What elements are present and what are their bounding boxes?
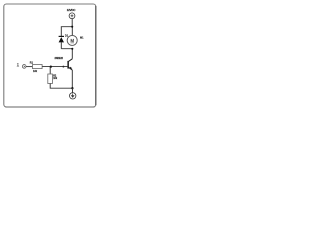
node base pin: [62, 66, 64, 68]
wire input to R1: [26, 66, 32, 68]
wire junction to R2: [49, 67, 51, 74]
node emitter/ground junction: [71, 87, 73, 89]
diode D1: [59, 36, 64, 48]
wire R2 to ground rail: [50, 84, 72, 89]
resistor R2: [48, 74, 53, 84]
svg-text:12VDC: 12VDC: [67, 8, 76, 12]
svg-text:2N2222: 2N2222: [55, 57, 64, 60]
ground: [70, 88, 76, 99]
wire R1 to base: [42, 66, 68, 68]
wire motor bottom rail: [61, 49, 72, 59]
resistor R1: [33, 65, 43, 69]
wire top rail: [61, 27, 72, 36]
wire power down: [71, 19, 73, 27]
svg-text:M1: M1: [80, 37, 84, 40]
input port terminal: [17, 63, 26, 68]
motor M1: [67, 35, 77, 45]
transistor Q1: [67, 59, 72, 70]
node collector junction: [71, 48, 73, 50]
power supply V1: [69, 13, 75, 19]
node power/rail junction: [71, 26, 73, 28]
wire emitter down: [71, 70, 73, 88]
node R1/R2 junction: [50, 66, 52, 68]
border frame: [4, 4, 96, 107]
svg-text:M: M: [70, 38, 74, 43]
